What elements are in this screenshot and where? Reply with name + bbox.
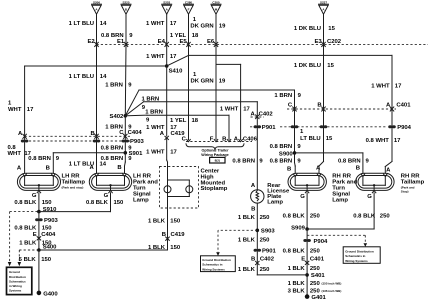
wire S402 down to S901, 1 BRN 9 bbox=[105, 116, 132, 153]
wire S402 branch 2 diagonal to license BRN bus bbox=[125, 102, 257, 116]
svg-text:S410: S410 bbox=[169, 69, 183, 75]
svg-text:Schematics: Schematics bbox=[9, 279, 26, 283]
C406 terminal chevron pin A bbox=[239, 139, 243, 141]
wire LH park lamp ground, 0.8 BLK 150 bbox=[86, 200, 124, 206]
svg-text:C404: C404 bbox=[128, 130, 143, 136]
svg-text:Wiring Package: Wiring Package bbox=[201, 153, 228, 157]
svg-text:G: G bbox=[104, 193, 109, 199]
svg-text:1 BRN: 1 BRN bbox=[105, 82, 123, 88]
svg-text:Distribution: Distribution bbox=[9, 275, 26, 279]
RH RR park and turn signal lamp label bbox=[332, 174, 357, 204]
wire C280 to E5, 1 YEL 18 bbox=[170, 14, 199, 44]
connector C404 dashed line bbox=[25, 135, 131, 137]
svg-text:17: 17 bbox=[243, 107, 250, 113]
wire BRN bus down to C401 pin C, S900 bbox=[274, 90, 301, 153]
svg-text:E2: E2 bbox=[87, 39, 95, 45]
P903 terminal on BRN wire bbox=[122, 140, 130, 143]
svg-text:G401: G401 bbox=[311, 295, 326, 300]
connector C406 pin A letter and label bbox=[234, 136, 258, 142]
wire S400 down to G400, 5 BLK 150 bbox=[19, 250, 52, 293]
svg-text:250: 250 bbox=[310, 288, 321, 294]
svg-text:Stop): Stop) bbox=[401, 190, 409, 194]
splice S400 bbox=[37, 244, 57, 251]
svg-text:G: G bbox=[367, 194, 372, 200]
wire DK BLU down from C202 to RH park lamp A bbox=[294, 44, 335, 173]
svg-text:C401: C401 bbox=[396, 102, 411, 108]
P901 terminal on license BRN wire bbox=[254, 125, 262, 128]
ground G401 bbox=[305, 294, 327, 300]
svg-text:1 BLK: 1 BLK bbox=[238, 267, 256, 273]
svg-text:150: 150 bbox=[114, 200, 125, 206]
splice S900 bbox=[279, 151, 296, 157]
svg-text:17: 17 bbox=[170, 149, 177, 155]
svg-text:E1: E1 bbox=[117, 39, 125, 45]
svg-text:15: 15 bbox=[326, 136, 333, 142]
connector triangle S253 bbox=[162, 0, 172, 14]
wire S237 to C202, 1 DK BLU 15 bbox=[294, 14, 336, 44]
dashed reference S903 to ground schematic box bbox=[216, 230, 257, 256]
label 0.8 BRN 9 above S901 bbox=[101, 146, 133, 152]
label 0.8 WHT 17 bbox=[366, 138, 402, 144]
wire E4 down to S410, 1 WHT 17 bbox=[146, 44, 177, 66]
svg-text:S903: S903 bbox=[261, 229, 275, 235]
svg-text:B: B bbox=[356, 165, 360, 171]
svg-text:C: C bbox=[182, 136, 187, 142]
svg-text:17: 17 bbox=[27, 107, 34, 113]
optional trailer wiring package label bbox=[201, 149, 229, 158]
connector C406 dashed line bbox=[186, 141, 252, 143]
svg-text:1 BRN: 1 BRN bbox=[145, 110, 163, 116]
svg-text:E6: E6 bbox=[207, 39, 215, 45]
svg-text:Systems: Systems bbox=[9, 289, 22, 293]
svg-text:P901: P901 bbox=[262, 249, 276, 255]
wire license lamp ground down to S401 line bbox=[256, 203, 258, 275]
svg-text:19: 19 bbox=[219, 24, 226, 30]
dashed reference P904 to ground schematic box bbox=[307, 235, 367, 247]
connector triangle S225 bbox=[121, 0, 131, 14]
svg-text:Schematics in: Schematics in bbox=[345, 254, 365, 258]
svg-text:A: A bbox=[251, 183, 256, 189]
C406 terminal chevron pin F bbox=[214, 139, 218, 141]
splice S903 bbox=[255, 229, 275, 235]
wire S909 down to S401 bbox=[306, 229, 308, 297]
svg-text:5 BLK: 5 BLK bbox=[19, 257, 37, 263]
svg-text:C202: C202 bbox=[327, 39, 342, 45]
svg-text:P903: P903 bbox=[44, 218, 58, 224]
label 1 BLK 250 RH lower bbox=[288, 266, 321, 272]
svg-text:250: 250 bbox=[260, 237, 271, 243]
trailer schematic reference box bbox=[210, 157, 225, 163]
svg-text:(155 inch WB): (155 inch WB) bbox=[322, 281, 342, 285]
svg-text:17: 17 bbox=[170, 54, 177, 60]
svg-text:B: B bbox=[117, 165, 121, 171]
connector P903 dashed line bbox=[25, 140, 131, 142]
label 0.8 BLK 250 RH mid bbox=[283, 248, 321, 254]
label 1 BLK 250 license lower bbox=[238, 267, 270, 273]
svg-text:3 BLK: 3 BLK bbox=[288, 288, 306, 294]
wire S909 cross to RH taillamp ground bbox=[307, 228, 374, 230]
svg-text:Lamp: Lamp bbox=[133, 197, 149, 203]
svg-text:F: F bbox=[188, 8, 190, 12]
svg-text:14: 14 bbox=[100, 21, 107, 27]
wire RH park lamp ground labels 0.8 BLK 250 bbox=[283, 214, 321, 220]
connector C419 pin A bbox=[160, 131, 186, 140]
label 0.8 BLK 150 bbox=[14, 226, 52, 232]
svg-text:Ground: Ground bbox=[9, 270, 20, 274]
RH RR taillamp ground pigtail G bbox=[367, 193, 374, 229]
svg-text:E3: E3 bbox=[314, 39, 322, 45]
svg-text:(Park and stop): (Park and stop) bbox=[62, 186, 84, 190]
P901 terminal on license ground bbox=[254, 249, 277, 255]
svg-text:B: B bbox=[317, 102, 321, 108]
svg-text:0.8 BLK: 0.8 BLK bbox=[283, 248, 306, 254]
svg-text:Lamp: Lamp bbox=[267, 200, 283, 206]
wire S410 down to stoplamp, 1 WHT 17 bbox=[146, 66, 177, 136]
wire S206 to E2, 1 LT BLU 14 bbox=[69, 14, 107, 44]
wire E2 LT BLU down to LH park lamp bbox=[69, 44, 107, 173]
connector C419 pin B bbox=[162, 232, 186, 240]
LH RR park and turn signal lamp label bbox=[133, 174, 158, 204]
svg-text:B: B bbox=[251, 257, 255, 263]
LH RR taillamp label bbox=[62, 174, 86, 190]
connector C404 pin E bbox=[33, 232, 56, 240]
svg-text:1 DK BLU: 1 DK BLU bbox=[294, 26, 321, 32]
svg-text:WHT: WHT bbox=[8, 151, 22, 157]
wire diagonal S410 to WHT bus bbox=[167, 55, 189, 66]
label 0.8 BRN 9 above S900 bbox=[270, 144, 302, 150]
label 1 BLK 250 license mid bbox=[238, 237, 270, 243]
svg-text:B: B bbox=[222, 136, 226, 142]
P904 terminal on RH ground bbox=[303, 239, 328, 245]
brace under C406 bbox=[186, 144, 244, 150]
svg-text:G: G bbox=[300, 194, 305, 200]
svg-text:C404: C404 bbox=[41, 232, 56, 238]
svg-text:150: 150 bbox=[41, 257, 52, 263]
wire S910 cross to LH park ground bbox=[39, 211, 111, 213]
svg-text:Ground Distribution: Ground Distribution bbox=[202, 258, 231, 262]
svg-text:E4: E4 bbox=[158, 39, 166, 45]
label 3 BLK 250 136 inch WB bbox=[288, 288, 342, 294]
RH RR park and turn signal lamp bbox=[287, 165, 326, 193]
svg-text:14: 14 bbox=[100, 74, 107, 80]
center high mounted stoplamp box bbox=[160, 167, 199, 209]
svg-text:B: B bbox=[91, 131, 95, 137]
svg-text:18: 18 bbox=[192, 33, 199, 39]
connector triangle C200 bbox=[211, 0, 221, 14]
C406 terminal chevron pin B bbox=[227, 139, 231, 141]
svg-text:G: G bbox=[32, 193, 37, 199]
svg-text:1 WHT: 1 WHT bbox=[146, 21, 165, 27]
splice S401 bbox=[305, 273, 325, 279]
label 1 LT BLU 15 bbox=[300, 129, 333, 142]
grommet E6 bbox=[207, 39, 218, 47]
ground distribution schematics box left bbox=[7, 267, 32, 294]
wire S402 branch 3 to trailer pin B bbox=[125, 115, 229, 139]
svg-text:S909: S909 bbox=[291, 226, 305, 232]
svg-text:15: 15 bbox=[328, 26, 335, 32]
svg-text:1 DK BLU: 1 DK BLU bbox=[294, 63, 321, 69]
svg-text:C406: C406 bbox=[243, 136, 258, 142]
ground G400 bbox=[37, 291, 59, 298]
svg-text:250: 250 bbox=[310, 248, 321, 254]
svg-text:A: A bbox=[17, 166, 22, 172]
wire 0.8 WHT 17 label lower bbox=[8, 145, 32, 157]
connector C404 pin C label C404 bbox=[119, 130, 142, 136]
svg-text:A: A bbox=[386, 167, 391, 173]
svg-text:P904: P904 bbox=[397, 125, 411, 131]
svg-text:1 LT BLU: 1 LT BLU bbox=[69, 74, 94, 80]
svg-text:Optional Trailer: Optional Trailer bbox=[201, 149, 229, 153]
wire S253 to E4, 1 WHT 17 bbox=[146, 14, 177, 44]
wire S401 cross to license ground bbox=[257, 274, 307, 276]
svg-text:17: 17 bbox=[170, 125, 177, 131]
wire LH feed down, 1 WHT 17 bbox=[8, 66, 34, 173]
wire branch to trailer pin A bbox=[216, 64, 250, 139]
grommet E5 bbox=[179, 39, 190, 47]
label 1 BRN 9 branch 1 bbox=[142, 96, 160, 111]
svg-text:1 WHT: 1 WHT bbox=[146, 149, 165, 155]
connector C401 pin A label bbox=[386, 102, 411, 108]
svg-text:DK GRN: DK GRN bbox=[190, 78, 213, 84]
svg-text:E: E bbox=[301, 256, 305, 262]
svg-text:0.8 BRN: 0.8 BRN bbox=[101, 156, 124, 162]
wire LH taillamp ground, 0.8 BLK 150 bbox=[14, 200, 52, 206]
svg-text:1 BLK: 1 BLK bbox=[238, 215, 256, 221]
svg-text:250: 250 bbox=[260, 267, 271, 273]
svg-text:250: 250 bbox=[260, 215, 271, 221]
wire 1 YEL 18 label bbox=[170, 118, 199, 124]
svg-text:A: A bbox=[251, 112, 256, 118]
svg-text:150: 150 bbox=[42, 226, 53, 232]
svg-text:A: A bbox=[234, 136, 239, 142]
svg-text:0.8 WHT: 0.8 WHT bbox=[366, 138, 390, 144]
wire S410 branch left to LH taillamp feed bbox=[25, 65, 167, 67]
svg-text:1 WHT: 1 WHT bbox=[371, 83, 390, 89]
P903 terminal on LH WHT wire bbox=[21, 140, 29, 143]
wire license feed down, 0.8 BRN 9 bbox=[232, 102, 263, 190]
wire S402 branch 1 diagonal to RH BRN bus bbox=[125, 90, 294, 116]
splice S901 bbox=[124, 151, 144, 157]
svg-text:0.8 BLK: 0.8 BLK bbox=[14, 200, 37, 206]
RH RR taillamp bbox=[356, 165, 394, 193]
svg-text:17: 17 bbox=[394, 138, 401, 144]
P901 terminal on DK BLU wire bbox=[320, 125, 328, 128]
connector P904 terminal on WHT wire bbox=[388, 125, 411, 131]
svg-text:Wiring Systems: Wiring Systems bbox=[345, 259, 368, 263]
C406 terminal chevron pin C bbox=[187, 139, 191, 141]
svg-text:15: 15 bbox=[327, 63, 334, 69]
wire S901 down to LH park lamp B, 0.8 BRN 9 bbox=[101, 153, 133, 173]
svg-text:150: 150 bbox=[170, 219, 181, 225]
svg-text:17: 17 bbox=[395, 83, 402, 89]
svg-text:B: B bbox=[287, 166, 291, 172]
P901 terminal on RH BRN wire bbox=[291, 125, 299, 128]
splice S402 bbox=[110, 114, 128, 120]
svg-text:1 YEL: 1 YEL bbox=[170, 118, 187, 124]
svg-text:0.8 BLK: 0.8 BLK bbox=[86, 200, 109, 206]
wire RH taillamp ground labels 0.8 BLK 250 bbox=[353, 214, 390, 220]
dashed reference from S910 to ground schematic box bbox=[8, 212, 39, 267]
LH RR taillamp bbox=[17, 166, 61, 193]
svg-text:250: 250 bbox=[310, 214, 321, 220]
svg-text:A: A bbox=[18, 131, 23, 137]
svg-text:17: 17 bbox=[170, 21, 177, 27]
svg-text:E: E bbox=[33, 232, 37, 238]
connector C402 pin A on license feed bbox=[251, 112, 274, 119]
svg-text:S401: S401 bbox=[311, 273, 325, 279]
wire S225 to E1, 0.8 BRN 9 bbox=[101, 14, 133, 44]
splice S909 bbox=[291, 226, 309, 232]
label 1 BLK 250 155 inch WB bbox=[288, 281, 342, 287]
grommet E1 bbox=[117, 39, 128, 47]
wire E1 BRN down to S402, 1 BRN 9 bbox=[105, 44, 132, 115]
label 1 BLK 150 stoplamp lower bbox=[148, 245, 181, 251]
svg-text:A: A bbox=[90, 165, 95, 171]
svg-text:18: 18 bbox=[192, 118, 199, 124]
dashed reference from S400 to ground schematic box bbox=[18, 250, 39, 266]
svg-text:1 BLK: 1 BLK bbox=[148, 219, 166, 225]
pass-through grommet dashed line E bbox=[97, 43, 428, 45]
LH RR park lamp ground pigtail G bbox=[104, 193, 111, 212]
svg-text:Stoplamp: Stoplamp bbox=[201, 186, 228, 192]
svg-text:Ground Distribution: Ground Distribution bbox=[345, 249, 374, 253]
wire WHT bus horizontal to RH taillamp drop bbox=[189, 54, 393, 56]
svg-text:C402: C402 bbox=[259, 112, 274, 118]
svg-text:0.8 BRN: 0.8 BRN bbox=[101, 146, 124, 152]
svg-text:1 BLK: 1 BLK bbox=[288, 266, 306, 272]
wire E5 down to C406 pin C bbox=[188, 44, 190, 139]
grommet E2 bbox=[87, 39, 98, 47]
svg-text:G400: G400 bbox=[43, 291, 58, 297]
wire S400 cross to stoplamp ground bbox=[39, 249, 168, 251]
svg-text:1 WHT: 1 WHT bbox=[220, 107, 239, 113]
svg-text:1 BRN: 1 BRN bbox=[142, 96, 160, 102]
svg-text:1 LT BLU: 1 LT BLU bbox=[69, 21, 94, 27]
svg-text:0.8 BRN: 0.8 BRN bbox=[232, 158, 255, 164]
svg-text:250: 250 bbox=[310, 281, 321, 287]
svg-text:S900: S900 bbox=[279, 151, 293, 157]
svg-text:0.8 BLK: 0.8 BLK bbox=[283, 214, 306, 220]
svg-text:0.8 BRN: 0.8 BRN bbox=[270, 159, 293, 165]
svg-text:1 BLK: 1 BLK bbox=[288, 281, 306, 287]
svg-text:LT BLU: LT BLU bbox=[300, 136, 321, 142]
svg-text:0.8 BLK: 0.8 BLK bbox=[353, 214, 376, 220]
label 1 BRN 9 branch 2 bbox=[145, 110, 163, 124]
connector triangle C280 bbox=[184, 0, 194, 14]
svg-text:C401: C401 bbox=[310, 256, 325, 262]
svg-text:C: C bbox=[119, 130, 124, 136]
wire 1 LT BLU 14 label at lamp bbox=[69, 161, 107, 167]
rear license plate lamp label bbox=[267, 183, 290, 206]
rear license plate lamp bbox=[251, 183, 264, 213]
svg-text:E5: E5 bbox=[179, 39, 187, 45]
LH RR park and turn signal lamp bbox=[89, 165, 131, 193]
svg-text:0.8 BRN: 0.8 BRN bbox=[338, 159, 361, 165]
svg-text:1 BRN: 1 BRN bbox=[274, 93, 292, 99]
wire S900 right branch to RH taillamp B, 0.8 BRN 9 bbox=[295, 153, 370, 173]
ground distribution schematics box right bbox=[343, 247, 380, 263]
RH RR taillamp label bbox=[401, 174, 425, 194]
svg-text:(136 inch WB): (136 inch WB) bbox=[322, 289, 342, 293]
connector triangle S206 bbox=[92, 0, 102, 14]
svg-text:150: 150 bbox=[42, 200, 53, 206]
ground distribution schematics box middle bbox=[201, 256, 236, 272]
center high mounted stoplamp label bbox=[201, 169, 228, 192]
svg-text:WHT: WHT bbox=[8, 107, 22, 113]
connector P901 dashed line bbox=[250, 125, 386, 131]
splice S910 bbox=[37, 207, 57, 214]
svg-text:1 BLK: 1 BLK bbox=[148, 245, 166, 251]
svg-text:F: F bbox=[210, 136, 214, 142]
wire C419 to stoplamp box, 1 WHT 17 bbox=[146, 138, 177, 167]
svg-text:1 BLK: 1 BLK bbox=[238, 237, 256, 243]
LH RR taillamp ground pigtail G bbox=[32, 193, 39, 212]
connector C401 dashed line bbox=[287, 108, 396, 110]
P903 terminal on LT BLU wire bbox=[93, 140, 101, 143]
svg-text:Schematics in: Schematics in bbox=[202, 263, 222, 267]
svg-text:P901: P901 bbox=[262, 125, 276, 131]
svg-text:19: 19 bbox=[219, 78, 226, 84]
svg-text:B: B bbox=[251, 206, 255, 212]
svg-text:S402: S402 bbox=[110, 114, 124, 120]
svg-text:0.8 BRN: 0.8 BRN bbox=[28, 156, 51, 162]
svg-text:250: 250 bbox=[310, 266, 321, 272]
RH RR park lamp ground pigtail G bbox=[300, 193, 307, 229]
svg-text:in Wiring: in Wiring bbox=[9, 284, 22, 288]
splice S410 bbox=[165, 64, 183, 74]
svg-text:DK GRN: DK GRN bbox=[190, 24, 213, 30]
svg-text:150: 150 bbox=[170, 245, 181, 251]
grommet E3 connector C202 bbox=[314, 39, 341, 47]
svg-text:A: A bbox=[316, 165, 321, 171]
svg-text:A: A bbox=[386, 102, 391, 108]
wire WHT down to C401 pin A, 1 WHT 17 bbox=[371, 55, 402, 173]
wire S900 down to RH park lamp B, 0.8 BRN 9 bbox=[270, 153, 302, 173]
svg-text:1 BLK: 1 BLK bbox=[19, 241, 37, 247]
svg-text:C: C bbox=[288, 102, 293, 108]
svg-text:A: A bbox=[160, 131, 165, 137]
wire C200 to E6, 1 DK GRN 19 bbox=[190, 14, 226, 44]
connector triangle S237 bbox=[319, 0, 329, 14]
svg-text:1 WHT: 1 WHT bbox=[146, 54, 165, 60]
grommet E4 bbox=[158, 39, 169, 47]
svg-text:C419: C419 bbox=[171, 232, 186, 238]
wire S910 down to P903 bbox=[38, 212, 40, 250]
label 1 BLK 150 bbox=[19, 241, 52, 247]
label 1 BLK 250 license upper bbox=[238, 215, 270, 221]
svg-text:0.8 BLK: 0.8 BLK bbox=[14, 226, 37, 232]
wire stoplamp ground, 1 BLK 150 bbox=[148, 208, 181, 250]
svg-text:8(2): 8(2) bbox=[215, 159, 220, 163]
connector C402 pin B bbox=[251, 257, 275, 265]
wire E6 DK GRN down to C406 pin F bbox=[190, 44, 226, 139]
connector C401 pin E bbox=[301, 256, 324, 264]
svg-text:P904: P904 bbox=[314, 239, 328, 245]
wire S901 left branch to LH taillamp B bbox=[28, 153, 125, 173]
svg-text:B: B bbox=[46, 166, 50, 172]
svg-text:1 WHT: 1 WHT bbox=[146, 125, 165, 131]
svg-text:C402: C402 bbox=[260, 257, 275, 263]
P903 terminal on ground wire bbox=[35, 218, 58, 224]
svg-text:Wiring Systems: Wiring Systems bbox=[202, 268, 225, 272]
svg-text:0.8 BRN: 0.8 BRN bbox=[270, 144, 293, 150]
svg-text:250: 250 bbox=[380, 214, 391, 220]
svg-text:P903: P903 bbox=[130, 139, 144, 145]
svg-text:Lamp: Lamp bbox=[332, 197, 348, 203]
